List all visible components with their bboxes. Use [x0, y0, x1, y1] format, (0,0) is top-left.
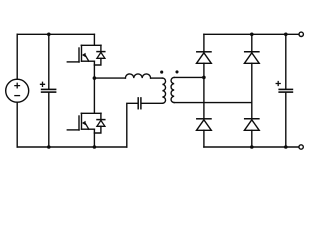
capacitor C3 output electrolytic	[276, 34, 292, 147]
wire bridge right leg upper	[251, 34, 253, 51]
wire bridge bottom rail	[204, 146, 299, 148]
wire Q2 source to bottom rail	[93, 129, 95, 147]
wire secondary top to bridge	[174, 76, 204, 78]
diode D4 lower right	[244, 119, 259, 131]
wire secondary bottom to bridge	[174, 102, 252, 104]
wire Q2 drain drop	[93, 78, 95, 113]
junction Q2 source bottom rail	[93, 145, 97, 149]
diode D2 upper right	[244, 52, 259, 64]
voltage source V1	[6, 79, 29, 102]
body diode of Q1	[94, 45, 105, 65]
wire bottom rail left	[17, 146, 127, 148]
wire bridge left leg middle	[203, 63, 205, 118]
dot secondary polarity	[175, 70, 178, 73]
junction node A secondary top	[202, 76, 206, 80]
wire bridge right leg middle	[251, 63, 253, 118]
transformer T1 primary winding	[162, 78, 165, 103]
wire primary bottom to capacitor	[142, 102, 163, 104]
body diode of Q2	[94, 113, 105, 133]
wire left rail upper	[16, 34, 18, 79]
capacitor C1 input electrolytic	[41, 34, 56, 147]
junction C3 top	[284, 33, 288, 37]
wire Q1 drain drop	[93, 34, 95, 45]
wire capacitor to bottom rail drop	[127, 103, 138, 147]
wire bridge top rail	[204, 33, 299, 35]
capacitor C2 resonant series	[138, 98, 141, 109]
terminal output positive	[299, 32, 303, 36]
wire Q1 source to midpoint	[93, 61, 95, 78]
junction C1 top	[47, 33, 51, 37]
diode D1 upper left	[197, 52, 212, 64]
wire bridge right leg lower	[251, 130, 253, 147]
wire bridge left leg upper	[203, 34, 205, 51]
wire bridge left leg lower	[203, 130, 205, 147]
wire inductor to primary	[151, 77, 163, 79]
junction C3 bottom	[284, 145, 288, 149]
inductor L1 resonant	[125, 74, 150, 78]
wire top rail left	[17, 33, 94, 35]
transistor Q2 bottom MOSFET	[67, 113, 101, 130]
transformer T1 secondary winding	[171, 77, 174, 102]
transistor Q1 top MOSFET	[67, 45, 101, 62]
terminal output negative	[299, 145, 303, 149]
junction right leg bottom rail	[250, 145, 254, 149]
diode D3 lower left	[197, 119, 212, 131]
junction C1 bottom	[47, 145, 51, 149]
junction right leg top rail	[250, 33, 254, 37]
wire midpoint to inductor	[94, 77, 125, 79]
junction midpoint node	[93, 76, 97, 80]
wire left rail lower	[16, 102, 18, 147]
dot primary polarity	[160, 71, 163, 74]
